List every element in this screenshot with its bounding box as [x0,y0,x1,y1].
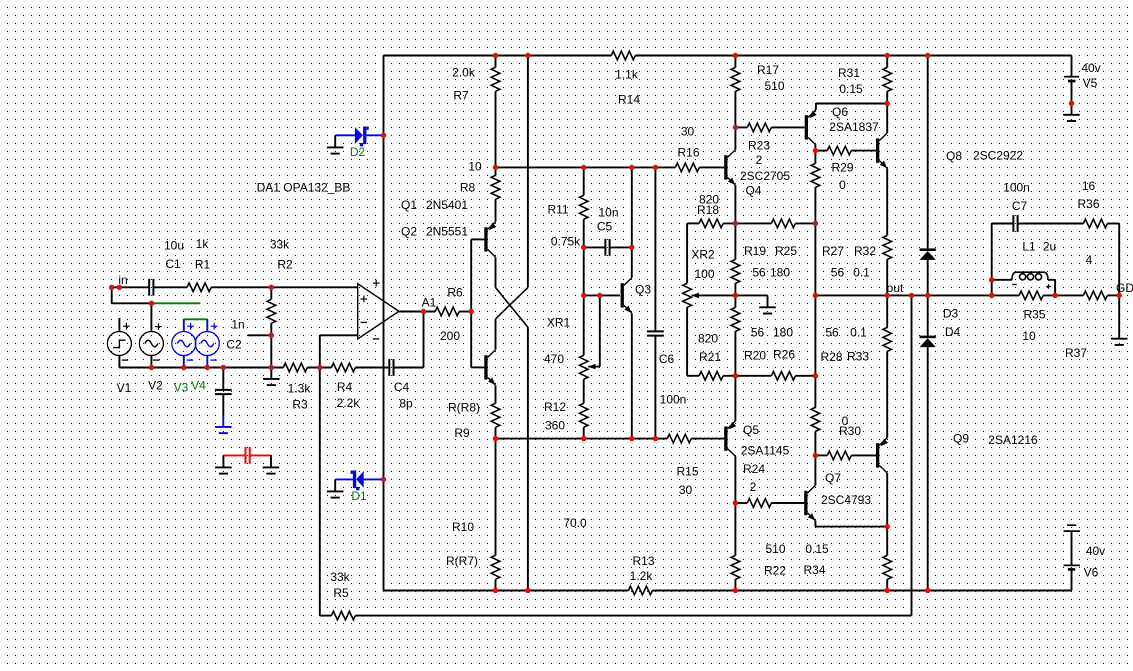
svg-text:2: 2 [750,480,757,494]
svg-text:GD: GD [1116,281,1133,295]
svg-text:R17: R17 [757,63,779,77]
svg-text:200: 200 [440,329,460,343]
svg-text:C1: C1 [165,257,181,271]
svg-text:R6: R6 [447,286,463,300]
svg-text:Q6: Q6 [832,105,848,119]
svg-text:Q1: Q1 [401,198,417,212]
svg-text:360: 360 [545,419,565,433]
svg-text:Q3: Q3 [635,283,651,297]
svg-text:R16: R16 [677,146,699,160]
svg-text:30: 30 [681,125,695,139]
svg-text:C5: C5 [597,220,613,234]
svg-text:V6: V6 [1084,566,1099,580]
svg-text:R37: R37 [1065,346,1087,360]
svg-text:56: 56 [825,326,839,340]
svg-text:R10: R10 [452,520,474,534]
svg-text:R24: R24 [743,462,765,476]
svg-text:V1: V1 [117,381,132,395]
svg-text:R32: R32 [854,244,876,258]
svg-text:100n: 100n [660,393,687,407]
svg-text:D2: D2 [350,145,366,159]
svg-text:R20: R20 [744,349,766,363]
svg-text:10n: 10n [598,206,618,220]
svg-text:40v: 40v [1081,61,1100,75]
svg-text:R(R7): R(R7) [446,554,478,568]
svg-text:out: out [887,281,904,295]
svg-text:2SC4793: 2SC4793 [821,493,871,507]
svg-text:2.2k: 2.2k [337,396,361,410]
svg-text:2u: 2u [1043,240,1056,254]
svg-text:R33: R33 [847,350,869,364]
svg-text:56: 56 [751,326,765,340]
svg-text:R25: R25 [775,244,797,258]
svg-text:Q5: Q5 [743,423,759,437]
svg-text:D1: D1 [351,489,367,503]
svg-text:100: 100 [694,267,714,281]
svg-text:R28: R28 [820,350,842,364]
svg-text:2.0k: 2.0k [452,66,476,80]
svg-text:R31: R31 [838,66,860,80]
svg-text:1.2k: 1.2k [630,569,654,583]
svg-text:D3: D3 [943,307,959,321]
svg-text:A1: A1 [422,296,437,310]
svg-text:0.15: 0.15 [839,82,863,96]
svg-text:Q2: Q2 [401,225,417,239]
svg-text:2SC2922: 2SC2922 [973,149,1023,163]
svg-text:R8: R8 [460,181,476,195]
svg-text:2SC2705: 2SC2705 [740,169,790,183]
svg-text:V5: V5 [1083,76,1098,90]
svg-text:Q4: Q4 [745,184,761,198]
svg-text:L1: L1 [1022,240,1036,254]
svg-text:C2: C2 [226,338,242,352]
svg-text:1k: 1k [196,237,210,251]
svg-text:R4: R4 [337,380,353,394]
svg-text:0.1: 0.1 [850,326,867,340]
svg-text:180: 180 [770,266,790,280]
svg-text:Q9: Q9 [953,432,969,446]
svg-text:33k: 33k [330,570,350,584]
svg-text:56: 56 [752,266,766,280]
svg-text:10: 10 [468,160,482,174]
svg-text:0.15: 0.15 [805,542,829,556]
svg-text:2SA1837: 2SA1837 [829,120,879,134]
svg-text:R13: R13 [632,554,654,568]
svg-text:in: in [118,273,127,287]
svg-text:56: 56 [831,266,845,280]
svg-text:R3: R3 [292,398,308,412]
svg-text:33k: 33k [270,238,290,252]
svg-text:R12: R12 [544,400,566,414]
svg-text:XR1: XR1 [547,316,571,330]
svg-text:R2: R2 [277,258,293,272]
svg-text:0: 0 [839,178,846,192]
svg-text:V2: V2 [148,379,163,393]
svg-text:XR2: XR2 [691,248,715,262]
svg-text:R14: R14 [618,93,640,107]
svg-text:40v: 40v [1086,544,1105,558]
svg-text:R(R8): R(R8) [448,401,480,415]
svg-text:820: 820 [698,332,718,346]
svg-text:0.1: 0.1 [853,266,870,280]
svg-text:Q8: Q8 [946,149,962,163]
svg-text:2N5551: 2N5551 [426,225,468,239]
svg-text:C4: C4 [394,380,410,394]
svg-text:R26: R26 [773,348,795,362]
svg-text:470: 470 [544,352,564,366]
svg-text:510: 510 [764,79,784,93]
svg-text:C7: C7 [1012,199,1028,213]
svg-text:4: 4 [1086,253,1093,267]
svg-text:1.1k: 1.1k [615,68,639,82]
svg-text:R30: R30 [839,424,861,438]
svg-text:30: 30 [679,483,693,497]
svg-text:R21: R21 [699,350,721,364]
svg-text:10u: 10u [164,239,184,253]
svg-text:R9: R9 [454,426,470,440]
svg-text:R35: R35 [1023,308,1045,322]
svg-text:0.75k: 0.75k [551,235,581,249]
svg-text:2: 2 [756,153,763,167]
svg-text:R18: R18 [697,203,719,217]
svg-text:R36: R36 [1077,197,1099,211]
svg-text:V3: V3 [174,381,189,395]
svg-text:1n: 1n [231,318,244,332]
svg-text:R7: R7 [453,89,469,103]
svg-text:10: 10 [1022,329,1036,343]
svg-text:2SA1145: 2SA1145 [741,444,790,458]
svg-text:510: 510 [765,542,785,556]
svg-text:R22: R22 [764,564,786,578]
svg-text:1.3k: 1.3k [288,382,312,396]
svg-text:V4: V4 [191,379,206,393]
svg-text:R1: R1 [195,258,211,272]
svg-text:DA1 OPA132_BB: DA1 OPA132_BB [257,181,351,195]
svg-text:R19: R19 [744,244,766,258]
svg-text:100n: 100n [1003,181,1030,195]
svg-text:Q7: Q7 [825,471,841,485]
svg-text:8p: 8p [399,397,413,411]
svg-text:R34: R34 [803,563,825,577]
svg-text:C6: C6 [659,352,675,366]
svg-text:R5: R5 [333,586,349,600]
svg-text:16: 16 [1082,179,1096,193]
svg-text:2SA1216: 2SA1216 [988,433,1038,447]
svg-text:R29: R29 [831,161,853,175]
svg-text:R23: R23 [748,139,770,153]
svg-text:D4: D4 [945,325,961,339]
svg-text:R11: R11 [547,203,568,217]
svg-text:180: 180 [773,326,793,340]
svg-text:2N5401: 2N5401 [426,198,468,212]
svg-text:R27: R27 [822,244,844,258]
svg-text:R15: R15 [676,465,698,479]
svg-text:70.0: 70.0 [563,516,587,530]
